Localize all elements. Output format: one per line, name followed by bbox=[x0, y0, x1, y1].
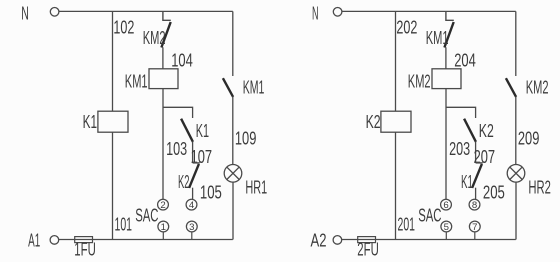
NO contact KM1 bbox=[223, 78, 265, 98]
relay coil K2 bbox=[366, 111, 411, 132]
SAC terminal 4 bbox=[186, 199, 197, 211]
wire: SAC lower-right terminal to bottom bus bbox=[474, 232, 476, 240]
contactor coil KM2 bbox=[408, 69, 461, 92]
svg-text:KM1: KM1 bbox=[426, 28, 449, 48]
NC contact KM1 bbox=[426, 11, 454, 48]
SAC terminal 7 bbox=[469, 221, 480, 233]
wire 101: coil K1 to bottom bus bbox=[112, 132, 114, 239]
wire 209: contact KM2 to lamp HR2 bbox=[515, 97, 517, 165]
wire 107: between contacts bbox=[192, 142, 194, 163]
svg-text:102: 102 bbox=[113, 18, 134, 38]
SAC terminal 3 bbox=[186, 221, 197, 233]
svg-text:202: 202 bbox=[396, 18, 417, 38]
svg-text:HR2: HR2 bbox=[528, 177, 551, 197]
svg-text:K2: K2 bbox=[479, 121, 494, 141]
wire 203: coil KM2 down to SAC terminal bbox=[445, 89, 447, 200]
svg-text:HR1: HR1 bbox=[245, 177, 267, 197]
wire: lamp HR2 to bottom bus bbox=[515, 182, 517, 239]
svg-text:5: 5 bbox=[444, 222, 449, 233]
NC contact K2 bbox=[178, 163, 200, 192]
svg-text:K1: K1 bbox=[461, 172, 473, 192]
wire: top horizontal bus from N terminal bbox=[59, 10, 233, 12]
wire 201: coil K2 to bottom bus bbox=[395, 132, 397, 239]
svg-text:K2: K2 bbox=[366, 112, 381, 132]
wire 103: coil KM1 down to SAC terminal bbox=[162, 89, 164, 200]
svg-text:SAC: SAC bbox=[135, 206, 158, 226]
svg-text:205: 205 bbox=[483, 182, 505, 202]
NO contact K1 bbox=[181, 119, 209, 142]
svg-text:A1: A1 bbox=[28, 231, 40, 251]
svg-text:209: 209 bbox=[518, 128, 540, 148]
fuse 1FU bbox=[74, 237, 96, 260]
svg-text:KM2: KM2 bbox=[526, 78, 549, 98]
svg-text:105: 105 bbox=[200, 182, 222, 202]
wire: lamp HR1 to bottom bus bbox=[232, 182, 234, 239]
svg-text:4: 4 bbox=[189, 200, 195, 211]
svg-text:104: 104 bbox=[171, 50, 193, 70]
svg-text:201: 201 bbox=[398, 215, 416, 235]
wire: top horizontal bus from N terminal bbox=[342, 10, 516, 12]
wire: branch junction to contact K2 bbox=[446, 107, 476, 118]
wire 204: contact KM1 to coil KM2 bbox=[445, 47, 447, 69]
wire 202: vertical to coil K2 bbox=[395, 11, 397, 111]
wire: bottom horizontal bus bbox=[342, 239, 516, 241]
wire: bottom horizontal bus bbox=[59, 239, 233, 241]
svg-text:KM1: KM1 bbox=[243, 78, 265, 98]
svg-text:3: 3 bbox=[189, 222, 194, 233]
terminal A2 bbox=[311, 231, 342, 251]
svg-text:1FU: 1FU bbox=[74, 240, 96, 260]
svg-text:KM2: KM2 bbox=[143, 28, 166, 48]
svg-text:1: 1 bbox=[161, 222, 166, 233]
svg-text:107: 107 bbox=[191, 147, 213, 167]
svg-text:7: 7 bbox=[472, 222, 477, 233]
SAC terminal 6 bbox=[441, 199, 452, 211]
svg-text:204: 204 bbox=[454, 50, 476, 70]
wire 105: contact K2 to SAC terminal bbox=[192, 188, 194, 200]
svg-text:101: 101 bbox=[115, 215, 133, 235]
terminal N (neutral) bbox=[312, 4, 342, 24]
SAC terminal 8 bbox=[469, 199, 480, 211]
svg-text:109: 109 bbox=[235, 128, 257, 148]
svg-text:SAC: SAC bbox=[418, 206, 441, 226]
wire 102: vertical to coil K1 bbox=[112, 11, 114, 111]
svg-text:KM2: KM2 bbox=[408, 71, 431, 91]
terminal N (neutral) bbox=[21, 4, 59, 24]
NO contact KM2 bbox=[506, 78, 549, 98]
svg-text:K2: K2 bbox=[178, 172, 190, 192]
svg-text:N: N bbox=[312, 4, 319, 24]
wire: branch junction to contact K1 bbox=[163, 107, 193, 118]
SAC terminal 2 bbox=[158, 199, 169, 211]
svg-text:A2: A2 bbox=[311, 231, 327, 251]
svg-text:8: 8 bbox=[472, 200, 477, 211]
svg-text:N: N bbox=[21, 4, 29, 24]
wire: SAC lower-left terminal to bottom bus bbox=[445, 232, 447, 240]
wire 207: between contacts bbox=[475, 142, 477, 163]
wire: top bus down to contact KM1 bbox=[232, 11, 234, 76]
svg-text:K1: K1 bbox=[196, 121, 209, 141]
wire: SAC lower-right terminal to bottom bus bbox=[191, 232, 193, 240]
svg-text:K1: K1 bbox=[83, 112, 97, 132]
svg-text:6: 6 bbox=[443, 200, 448, 211]
NC contact KM2 bbox=[143, 11, 171, 48]
SAC terminal 5 bbox=[441, 221, 452, 233]
indicator lamp HR2 bbox=[507, 165, 551, 198]
svg-text:103: 103 bbox=[166, 139, 187, 159]
indicator lamp HR1 bbox=[224, 165, 267, 198]
wire 205: contact K1 to SAC terminal bbox=[475, 188, 477, 200]
svg-text:207: 207 bbox=[474, 147, 496, 167]
svg-text:203: 203 bbox=[449, 139, 470, 159]
NC contact K1 bbox=[461, 163, 483, 192]
contactor coil KM1 bbox=[125, 69, 178, 92]
svg-text:2: 2 bbox=[160, 200, 165, 211]
terminal A1 bbox=[28, 231, 59, 251]
relay coil K1 bbox=[83, 111, 128, 132]
NO contact K2 bbox=[464, 119, 494, 142]
svg-text:KM1: KM1 bbox=[125, 71, 148, 91]
wire 109: contact KM1 to lamp HR1 bbox=[232, 97, 234, 165]
fuse 2FU bbox=[357, 237, 379, 260]
SAC terminal 1 bbox=[158, 221, 169, 233]
wire 104: contact KM2 to coil KM1 bbox=[162, 47, 164, 69]
wire: top bus down to contact KM2 bbox=[515, 11, 517, 76]
wire: SAC lower-left terminal to bottom bus bbox=[162, 232, 164, 240]
svg-text:2FU: 2FU bbox=[357, 240, 379, 260]
